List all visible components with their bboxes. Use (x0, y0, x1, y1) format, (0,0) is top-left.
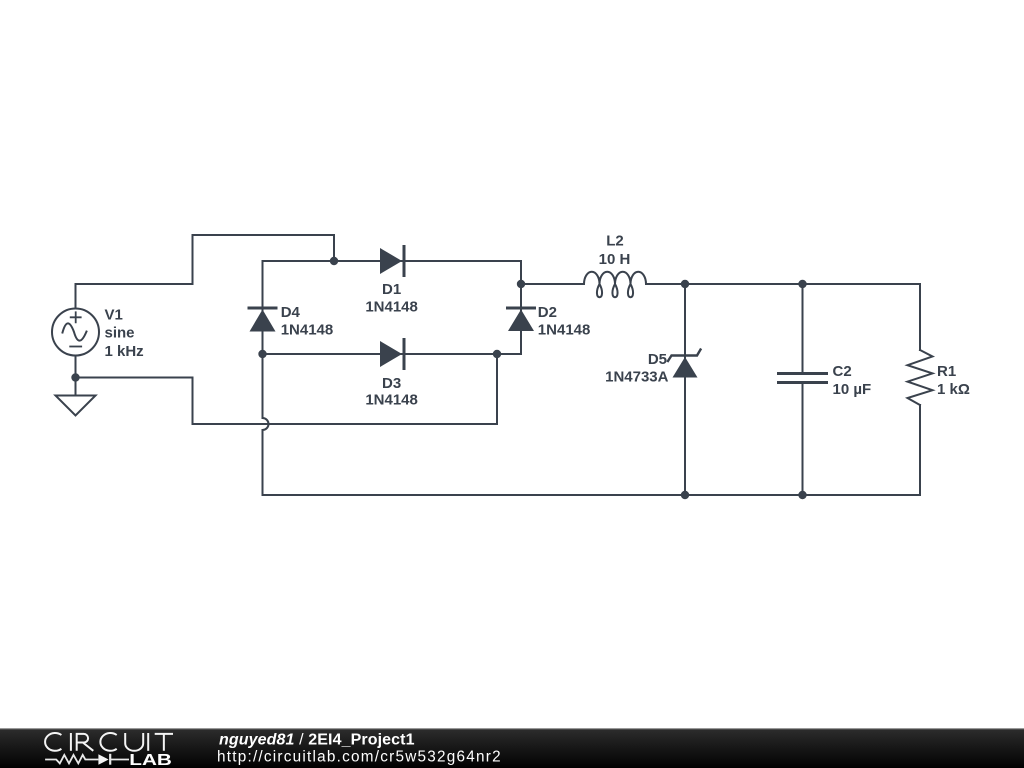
svg-text:V1: V1 (105, 307, 123, 324)
svg-text:LAB: LAB (129, 752, 172, 768)
svg-text:D2: D2 (538, 304, 557, 321)
svg-text:1N4148: 1N4148 (281, 322, 334, 339)
svg-text:1N4733A: 1N4733A (605, 369, 669, 386)
svg-text:L2: L2 (606, 233, 624, 250)
svg-text:1 kΩ: 1 kΩ (937, 381, 970, 398)
svg-text:D4: D4 (281, 304, 301, 321)
svg-text:10 H: 10 H (599, 251, 631, 268)
svg-text:1N4148: 1N4148 (365, 392, 418, 409)
svg-text:D5: D5 (648, 351, 667, 368)
svg-text:nguyed81 / 2EI4_Project1: nguyed81 / 2EI4_Project1 (219, 732, 415, 749)
svg-text:1 kHz: 1 kHz (105, 343, 144, 360)
svg-text:D3: D3 (382, 375, 401, 392)
svg-text:http://circuitlab.com/cr5w532g: http://circuitlab.com/cr5w532g64nr2 (217, 749, 501, 766)
svg-text:R1: R1 (937, 363, 956, 380)
svg-text:sine: sine (105, 325, 135, 342)
svg-text:C2: C2 (833, 363, 852, 380)
svg-text:1N4148: 1N4148 (538, 322, 591, 339)
svg-text:1N4148: 1N4148 (365, 298, 418, 315)
svg-text:D1: D1 (382, 281, 401, 298)
svg-text:10 µF: 10 µF (833, 381, 872, 398)
